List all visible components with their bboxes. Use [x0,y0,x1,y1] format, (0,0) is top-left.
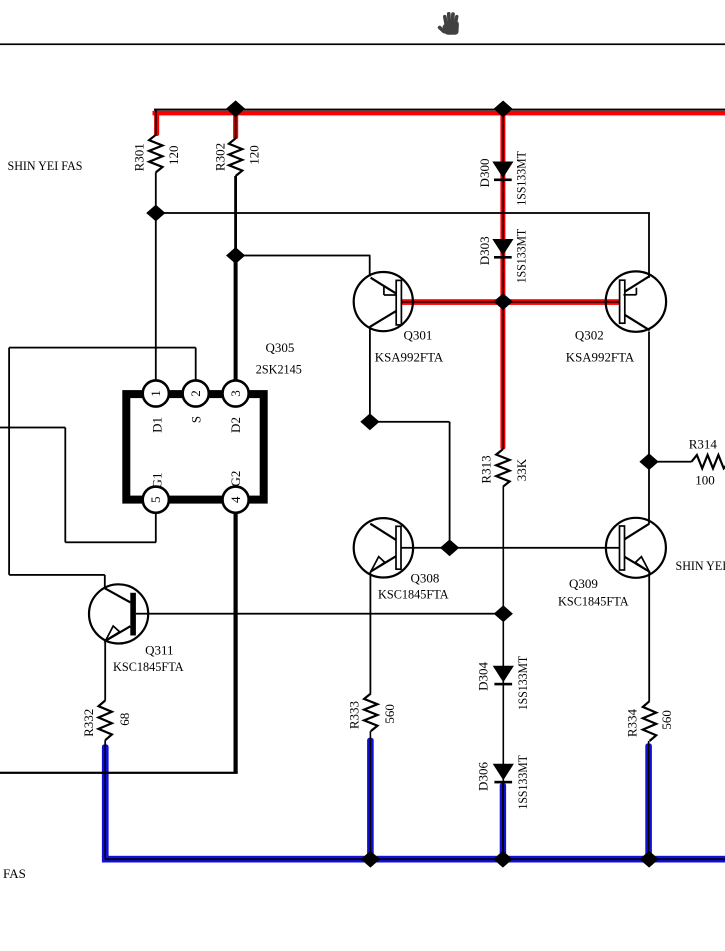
wire: corner down to Q301 [369,256,371,277]
wire: link corner down to Q308 base node [449,422,451,548]
transistor Q301 [354,272,413,331]
resistor R314 [692,455,725,468]
svg-text:KSC1845FTA: KSC1845FTA [113,659,184,674]
red stub to R302 [233,111,238,139]
svg-text:D1: D1 [149,417,164,433]
hand pan cursor [437,12,459,35]
svg-text:R334: R334 [625,709,640,738]
transistor Q309 [606,518,666,578]
wire: R313 bottom lead [503,487,505,614]
svg-text:560: 560 [659,710,674,730]
wire: Q308 emitter down to R333 [370,572,372,694]
wire: R314 lead from node [649,461,692,463]
svg-text:G1: G1 [149,473,164,489]
wire: D304 chain centerline [503,614,505,860]
resistor R301 [149,135,162,173]
red power bus horizontal wire [153,111,725,116]
wire: Q311 emitter to R332 [104,640,106,700]
svg-text:Q308: Q308 [411,570,440,585]
svg-text:R313: R313 [478,455,493,483]
svg-text:KSA992FTA: KSA992FTA [566,349,635,364]
junction: Q311 base / D304 chain [494,605,513,622]
blue riser from R332 [102,744,109,859]
svg-text:Q311: Q311 [145,642,173,657]
wire: bottom rail to pin4 [0,772,238,774]
svg-text:Q302: Q302 [575,328,604,343]
wire: Q311 collector vertical [104,575,106,589]
red base wire Q301 to Q302 [401,299,619,305]
blue stub from R333 [367,738,374,860]
diode D303 [492,239,513,255]
red vertical wire through D300 D303 to R313 [500,111,505,450]
wire: Q305 pin4 lead down (thick) [234,513,238,773]
svg-text:R332: R332 [81,709,96,737]
svg-text:Q301: Q301 [404,327,433,342]
junction: Q308 base / link [440,539,459,556]
wire: gate loop horizontal from left edge [0,427,65,429]
svg-text:KSC1845FTA: KSC1845FTA [378,587,449,602]
junction: blue bus / D306 [493,851,512,868]
wire: loop bottom to Q311 collector corner [9,574,105,576]
svg-text:R333: R333 [346,701,361,729]
blue ground bus horizontal wire [102,856,725,863]
transistor Q308 [354,518,413,577]
svg-text:R302: R302 [212,143,227,171]
junction: blue bus / R333 [361,851,380,868]
svg-text:G2: G2 [228,471,243,487]
Q305 pin 3 [223,380,249,406]
svg-text:1SS133MT: 1SS133MT [514,151,529,206]
svg-text:1: 1 [148,390,163,397]
wire: R333 stub centerline [370,731,372,859]
transistor Q302 [606,271,666,331]
resistor R313 [496,449,509,487]
svg-text:2: 2 [188,390,203,397]
IC Q305 2SK2145 package box [126,394,263,500]
wire: red bus black line [154,109,725,111]
Q305 pin 5 [143,487,169,513]
wire: node to link corner [370,421,450,423]
wire: R301 bottom lead to node [155,172,157,222]
svg-text:D303: D303 [477,236,492,265]
wire: D306 stub centerline [502,783,504,859]
red stub to R301 [154,111,159,136]
svg-text:D300: D300 [477,159,492,188]
wire: Q305 pin5 lead [155,513,157,543]
wire: Q302 collector down through R314 node to Q309 [648,332,650,524]
wire: blue bus centerline [105,858,725,860]
svg-text:KSA992FTA: KSA992FTA [375,349,444,364]
resistor R332 [99,701,112,741]
svg-text:4: 4 [228,496,243,503]
wire: R302 top lead [235,110,237,139]
Q305 pin 2 [183,380,209,406]
svg-text:S: S [188,416,203,423]
svg-text:100: 100 [695,473,715,488]
junction: Q301 collector / link [360,413,379,430]
wire: Q302 top vertical [648,213,650,278]
wire: node to Q305 pin3 (thick) [234,256,238,382]
wire: R302 bottom lead [234,176,237,256]
blue stub from D306 [500,783,506,860]
svg-text:Q309: Q309 [569,576,598,591]
junction: red bus / R302 [226,100,245,117]
diode D300 [492,162,513,178]
Q305 pin 1 [143,380,169,406]
Q305 pin 4 [223,487,249,513]
junction: R302 / row to Q301 [226,247,245,264]
wire: pin2 loop top [9,347,196,349]
svg-text:D304: D304 [475,661,490,690]
svg-text:D306: D306 [475,762,490,791]
wire: node row to Q302 top [156,212,650,214]
transistor Q311 [89,584,148,643]
svg-text:3: 3 [228,390,243,397]
svg-text:D2: D2 [228,417,243,433]
svg-text:SHIN YEI FAS: SHIN YEI FAS [676,558,725,573]
svg-text:Q305: Q305 [266,340,295,355]
wire: R332 bottom lead [104,740,106,746]
wire: R334 stub centerline [648,741,650,859]
svg-text:SHIN YEI FAS: SHIN YEI FAS [8,158,83,173]
wire: node row to Q301 top corner [236,255,371,257]
svg-text:KSC1845FTA: KSC1845FTA [558,594,629,609]
wire: base row Q301-Q302 black centerline [401,301,619,303]
wire: Q311 base row to node [136,613,503,615]
svg-text:2SK2145: 2SK2145 [256,362,302,377]
svg-text:33K: 33K [514,458,529,481]
junction: Q302 collector / R314 [639,453,658,470]
wire: R301 top lead [155,110,157,136]
resistor R334 [643,701,656,741]
junction: red bus / diode chain [494,101,513,118]
diode D306 [493,764,514,780]
wire: Q305 pin1 lead [155,222,157,381]
resistor R302 [229,138,242,176]
wire: pin2 loop left drop [8,348,10,575]
svg-text:5: 5 [148,496,163,503]
wire: Q309 emitter down to R334 [648,572,650,701]
wire: gate loop to pin5 [65,541,156,543]
svg-text:68: 68 [117,713,132,726]
svg-text:1SS133MT: 1SS133MT [514,229,529,284]
blue stub from R334 [645,743,652,859]
wire: Q301 collector down to node [369,327,371,422]
svg-text:560: 560 [382,704,397,724]
junction: R301 / row to Q302 [146,205,165,222]
svg-text:R314: R314 [689,436,718,451]
svg-text:120: 120 [166,146,181,166]
wire: Q308-Q309 base row [400,547,620,549]
diode D304 [493,666,514,682]
svg-text:FAS: FAS [3,866,26,881]
svg-text:120: 120 [246,145,261,165]
wire: gate loop vertical [64,428,66,543]
toolbar border line [0,43,725,45]
junction: base row / diode chain [494,293,513,310]
wire: blue riser centerline [104,746,106,859]
wire: Q305 pin2 lead up [195,348,197,381]
wire: D300 chain black centerline [503,110,505,450]
svg-text:1SS133MT: 1SS133MT [515,656,530,711]
svg-text:1SS133MT: 1SS133MT [515,755,530,810]
svg-text:R301: R301 [132,143,147,171]
junction: blue bus / R334 [640,851,659,868]
resistor R333 [364,694,377,732]
